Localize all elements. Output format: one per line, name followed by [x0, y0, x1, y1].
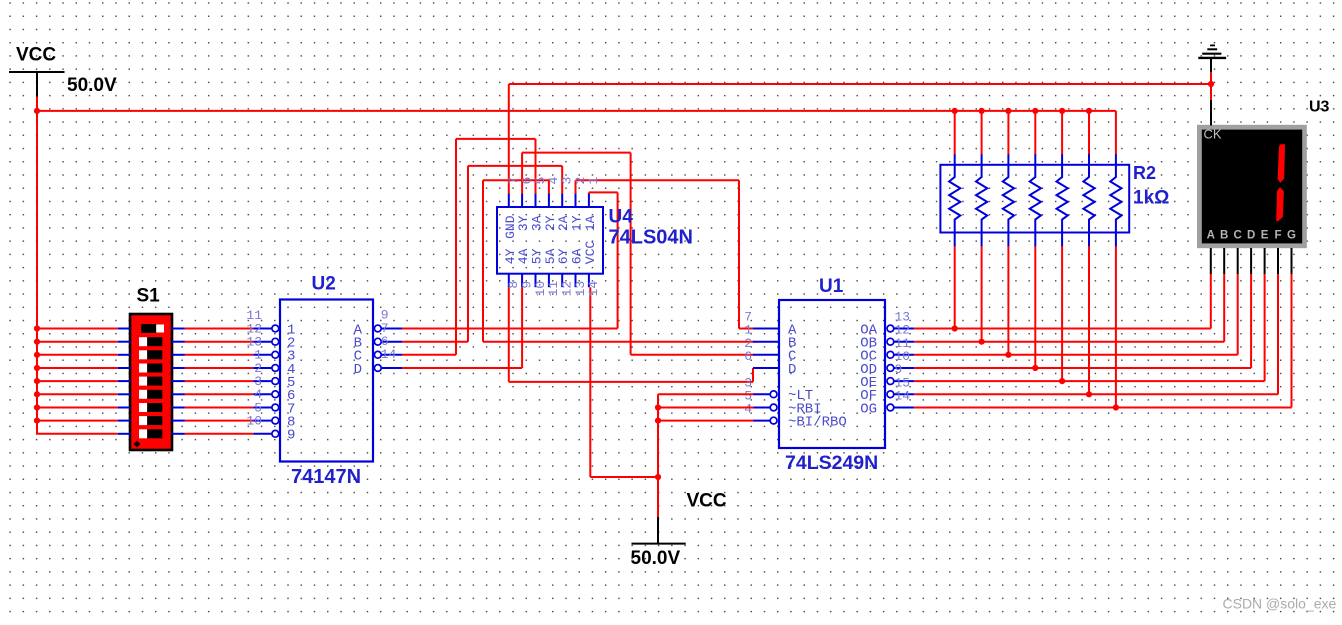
junction ground rail / CK: [1208, 81, 1214, 87]
wire net U2.C to U4 3A: [402, 139, 536, 355]
junction rail / R2 resistor 3: [1005, 108, 1011, 114]
pin U1 output OA (pin 13): [887, 325, 914, 332]
wire S1 to U2 row 5: [185, 380, 253, 382]
power VCC (top-left): [9, 45, 117, 98]
pin U1 output OB (pin 12): [887, 338, 914, 345]
svg-text:U4: U4: [609, 207, 634, 228]
wire net OD row: [914, 367, 1251, 369]
svg-text:CSDN @solo_exe: CSDN @solo_exe: [1223, 596, 1337, 612]
pin U2 output B (pin 7): [374, 338, 402, 345]
wire S1 to U2 row 9: [185, 433, 253, 435]
pin U4 top 3 (2A): [561, 194, 563, 208]
wire net OA row: [914, 328, 1211, 330]
pin U4 top 2 (1Y): [575, 194, 577, 208]
pin display B: [1223, 248, 1225, 274]
svg-text:G: G: [1287, 230, 1296, 242]
junction rail / R2 resistor 4: [1032, 108, 1038, 114]
pin S1 left 7: [118, 407, 131, 409]
junction R2 1 / OA: [952, 325, 958, 331]
switch S1 toggle 3 (off): [139, 350, 162, 359]
pin U4 bottom 14 (VCC): [588, 273, 590, 287]
pin U1 control ~RBI (pin 5): [753, 404, 777, 411]
pin display G: [1291, 248, 1293, 274]
pin U1 input B (pin 1): [753, 341, 780, 343]
wire S1 input row 8: [36, 420, 118, 422]
pin S1 left 8: [118, 420, 131, 422]
pin U4 top 6 (3Y): [521, 194, 523, 208]
wire S1 to U2 row 3: [185, 354, 253, 356]
wire display pin A drop: [1210, 274, 1212, 329]
svg-text:A: A: [1207, 230, 1215, 242]
pin U2 input 6 (pin 3): [253, 391, 278, 398]
wire S1 input row 4: [36, 367, 118, 369]
junction S1 column row 2: [34, 339, 40, 345]
junction S1 column row 8: [34, 418, 40, 424]
switch S1 toggle 6 (off): [139, 390, 162, 399]
wire display pin E drop: [1264, 274, 1266, 382]
wire S1 input row 2: [36, 341, 118, 343]
pin display E: [1264, 248, 1266, 274]
pin S1 left 1: [118, 328, 131, 330]
pin U4 bottom 8 (4Y): [508, 273, 510, 287]
display U3 body: [1197, 125, 1307, 248]
wire U4 GND pin up: [508, 84, 510, 194]
pin U1 input A (pin 7): [753, 328, 780, 330]
svg-text:U3: U3: [1309, 99, 1330, 116]
pin U1 control ~BI/RBO (pin 4): [753, 417, 777, 424]
switch S1 toggle 9 (off): [139, 429, 162, 438]
resistor pack R2 body: [940, 165, 1129, 233]
pin U1 output OE (pin 9): [887, 378, 914, 385]
pin U2 input 1 (pin 11): [253, 325, 278, 332]
wire ~LT row: [658, 393, 754, 395]
svg-text:S1: S1: [137, 286, 161, 307]
pin U1 input C (pin 2): [753, 354, 780, 356]
pin S1 left 4: [118, 367, 131, 369]
junction rail / R2 resistor 1: [952, 108, 958, 114]
svg-text:~BI/RBO: ~BI/RBO: [788, 415, 847, 431]
wire R2 resistor 3 drop: [1007, 246, 1009, 355]
svg-text:14: 14: [381, 347, 397, 362]
resistor R2 element 5: [1057, 154, 1068, 246]
wire net OE row: [914, 380, 1264, 382]
junction S1 column row 6: [34, 391, 40, 397]
wire VCC2 stub: [657, 477, 659, 518]
switch S1 toggle 2 (off): [139, 337, 162, 346]
switch S1 corner diamond marker: [134, 441, 141, 448]
pin U4 bottom 13 (6A): [575, 273, 577, 287]
wire R2 resistor 5 drop: [1061, 246, 1063, 381]
pin U2 input 4 (pin 1): [253, 365, 278, 372]
wire net U2.B to U4 2A: [402, 166, 562, 342]
junction rail / R2 resistor 6: [1086, 108, 1092, 114]
pin display A: [1210, 248, 1212, 274]
svg-text:74LS249N: 74LS249N: [785, 452, 878, 474]
wire net U4 3Y to U1.C: [522, 153, 753, 355]
pin S1 left 9: [118, 433, 131, 435]
resistor R2 element 1: [949, 154, 960, 246]
svg-text:U1: U1: [819, 276, 844, 297]
pin U2 input 8 (pin 5): [253, 417, 278, 424]
junction S1 column row 7: [34, 404, 40, 410]
svg-text:F: F: [1274, 230, 1281, 242]
svg-text:U2: U2: [312, 274, 336, 295]
junction R2 4 / OD: [1032, 365, 1038, 371]
junction rail / R2 resistor 2: [979, 108, 985, 114]
wire rail to R2 resistor 6: [1088, 111, 1090, 155]
svg-text:OG: OG: [860, 401, 877, 417]
pin display C: [1237, 248, 1239, 274]
wire net U4 4Y to U1.D: [509, 287, 753, 382]
svg-text:6: 6: [744, 349, 752, 364]
wire rail to R2 resistor 2: [981, 111, 983, 155]
pin U1 output OD (pin 10): [887, 365, 914, 372]
wire S1 input row 5: [36, 380, 118, 382]
svg-text:4: 4: [744, 402, 752, 417]
wire VCC vertical feeding S1 rows: [36, 97, 38, 434]
pin S1 right 5: [172, 380, 185, 382]
power VCC2 (bottom): [631, 491, 727, 570]
resistor R2 element 7: [1110, 154, 1121, 246]
svg-text:1: 1: [586, 177, 601, 185]
pin U2 output D (pin 14): [374, 365, 402, 372]
wire net U2.A to U4 1A: [402, 192, 618, 328]
svg-text:9: 9: [287, 428, 295, 444]
svg-text:D: D: [354, 362, 362, 378]
pin U4 top 5 (3A): [535, 194, 537, 208]
pin S1 left 2: [118, 341, 131, 343]
svg-text:14: 14: [586, 281, 601, 297]
pin U4 bottom 12 (6Y): [561, 273, 563, 287]
wire ~BI/RBO row: [658, 420, 754, 422]
wire R2 resistor 4 drop: [1034, 246, 1036, 368]
display segment B (lit): [1278, 144, 1285, 183]
pin S1 right 2: [172, 341, 185, 343]
wire rail to R2 resistor 5: [1061, 111, 1063, 155]
wire net U4 2Y to U1.B: [483, 180, 754, 341]
pin U4 bottom 11 (5A): [548, 273, 550, 287]
svg-text:D: D: [788, 362, 796, 378]
svg-text:E: E: [1261, 230, 1269, 242]
svg-text:C: C: [1234, 230, 1242, 242]
wire R2 resistor 2 drop: [981, 246, 983, 342]
junction VCC2 node: [655, 474, 661, 480]
wire ~RBI row: [658, 407, 754, 409]
IC U1 74LS249N body: [779, 300, 885, 448]
wire S1 to U2 row 4: [185, 367, 253, 369]
svg-text:D: D: [1247, 230, 1255, 242]
resistor R2 element 3: [1003, 154, 1014, 246]
pin S1 left 3: [118, 354, 131, 356]
svg-text:50.0V: 50.0V: [631, 548, 681, 569]
svg-text:1kΩ: 1kΩ: [1133, 188, 1169, 209]
pin S1 right 4: [172, 367, 185, 369]
wire rail to R2 resistor 7: [1115, 111, 1117, 155]
pin S1 right 1: [172, 328, 185, 330]
wire S1 input row 6: [36, 393, 118, 395]
switch S1 toggle 8 (off): [139, 416, 162, 425]
wire display pin C drop: [1237, 274, 1239, 355]
pin U1 output OC (pin 11): [887, 351, 914, 358]
pin U2 output C (pin 6): [374, 351, 402, 358]
junction S1 column row 3: [34, 352, 40, 358]
resistor R2 element 6: [1083, 154, 1094, 246]
junction rail / R2 resistor 5: [1059, 108, 1065, 114]
wire S1 input row 1: [36, 328, 118, 330]
junction S1 column row 1: [34, 325, 40, 331]
wire net U4 1Y to U1.A: [576, 180, 754, 328]
resistor R2 element 2: [976, 154, 987, 246]
svg-text:10: 10: [246, 414, 262, 429]
pin display CK: [1210, 100, 1212, 126]
pin display D: [1250, 248, 1252, 274]
pin display F: [1277, 248, 1279, 274]
svg-text:CK: CK: [1204, 127, 1222, 142]
wire net U4 VCC pin 14 down: [590, 287, 658, 477]
wire S1 to U2 row 8: [185, 420, 253, 422]
pin U2 input 5 (pin 2): [253, 378, 278, 385]
wire net U2.D to U4 4A: [402, 287, 522, 368]
switch S1 toggle 7 (off): [139, 403, 162, 412]
wire rail to R2 resistor 1: [954, 111, 956, 155]
wire R2 resistor 1 drop: [954, 246, 956, 329]
junction S1 column row 5: [34, 378, 40, 384]
wire R2 resistor 6 drop: [1088, 246, 1090, 394]
pin U4 top 7 (GND): [508, 194, 510, 208]
wire display pin B drop: [1223, 274, 1225, 342]
junction VCC / ~BI/RBO: [655, 418, 661, 424]
wire S1 to U2 row 7: [185, 407, 253, 409]
wire R2 resistor 7 drop: [1115, 246, 1117, 408]
pin U1 output OG (pin 14): [887, 404, 914, 411]
display segment letters A-G: [1207, 230, 1296, 242]
junction R2 6 / OF: [1086, 391, 1092, 397]
switch S1 toggle 4 (off): [139, 364, 162, 373]
svg-text:R2: R2: [1133, 163, 1156, 183]
wire display pin G drop: [1291, 274, 1293, 408]
resistor R2 element 4: [1030, 154, 1041, 246]
svg-text:B: B: [1220, 230, 1228, 242]
IC U2 74147N body: [280, 300, 373, 462]
svg-text:VCC: VCC: [583, 241, 598, 265]
svg-text:14: 14: [895, 389, 911, 404]
svg-text:74LS04N: 74LS04N: [609, 227, 694, 249]
junction VCC rail / S1 column: [34, 108, 40, 114]
pin U1 control ~LT (pin 3): [753, 391, 777, 398]
svg-text:74147N: 74147N: [291, 466, 361, 488]
wire net OG row: [914, 407, 1291, 409]
wire rail to R2 resistor 4: [1034, 111, 1036, 155]
wire S1 input row 7: [36, 407, 118, 409]
pin U1 input D (pin 6): [753, 367, 780, 369]
junction R2 2 / OB: [979, 339, 985, 345]
junction S1 column row 4: [34, 365, 40, 371]
pin U4 top 4 (2Y): [548, 194, 550, 208]
wire VCC horizontal rail to R2: [36, 110, 1116, 112]
pin U4 bottom 10 (5Y): [535, 273, 537, 287]
wire display pin D drop: [1250, 274, 1252, 369]
junction R2 5 / OE: [1059, 378, 1065, 384]
pin S1 right 3: [172, 354, 185, 356]
wire VCC2 vertical to control pins: [657, 394, 659, 478]
wire ground rail across top: [509, 83, 1211, 85]
junction R2 3 / OC: [1005, 352, 1011, 358]
pin S1 right 7: [172, 407, 185, 409]
switch S1 body: [130, 314, 172, 450]
ground: [1198, 45, 1226, 72]
wire net OF row: [914, 393, 1278, 395]
pin S1 right 6: [172, 393, 185, 395]
pin S1 right 9: [172, 433, 185, 435]
junction VCC / ~RBI: [655, 404, 661, 410]
pin U1 output OF (pin 15): [887, 391, 914, 398]
pin S1 right 8: [172, 420, 185, 422]
pin S1 left 5: [118, 380, 131, 382]
wire S1 to U2 row 1: [185, 328, 253, 330]
pin U4 bottom 9 (4A): [521, 273, 523, 287]
wire S1 to U2 row 6: [185, 393, 253, 395]
pin U4 top 1 (1A): [588, 194, 590, 208]
svg-text:1A: 1A: [583, 215, 598, 231]
wire net OC row: [914, 354, 1237, 356]
wire S1 input row 9: [36, 433, 118, 435]
svg-text:50.0V: 50.0V: [67, 75, 117, 96]
IC U4 74LS04N body: [497, 207, 603, 274]
wire net OB row: [914, 341, 1224, 343]
svg-text:VCC: VCC: [687, 491, 727, 512]
wire ground stub down to display CK: [1210, 72, 1212, 101]
wire S1 to U2 row 2: [185, 341, 253, 343]
pin U2 input 3 (pin 13): [253, 351, 278, 358]
pin U2 input 2 (pin 12): [253, 338, 278, 345]
wire display pin F drop: [1277, 274, 1279, 395]
pin U2 output A (pin 9): [374, 325, 402, 332]
wire rail to R2 resistor 3: [1007, 111, 1009, 155]
wire S1 input row 3: [36, 354, 118, 356]
svg-text:VCC: VCC: [16, 45, 56, 66]
switch S1 toggle 5 (off): [139, 377, 162, 386]
junction R2 7 / OG: [1113, 404, 1119, 410]
switch S1 toggle 1 (on): [141, 324, 164, 333]
pin S1 left 6: [118, 393, 131, 395]
pin U2 input 9 (pin 10): [253, 430, 278, 437]
pin U2 input 7 (pin 4): [253, 404, 278, 411]
display segment C (lit): [1276, 187, 1284, 221]
